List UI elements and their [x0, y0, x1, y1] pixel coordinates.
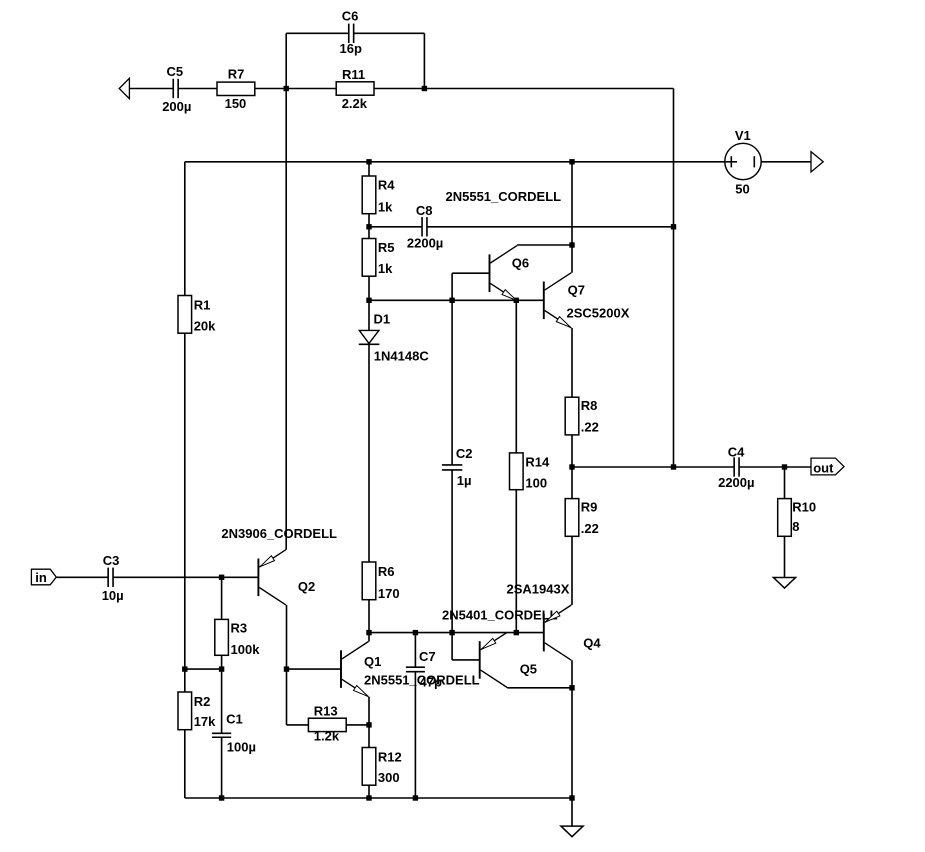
svg-text:1N4148C: 1N4148C — [374, 348, 430, 363]
svg-text:.22: .22 — [581, 521, 599, 536]
voltage source V1 50 — [725, 128, 761, 197]
wire C6 branch left vertical — [285, 33, 287, 88]
wire Q6 collector column up — [571, 162, 573, 245]
node output node at R8/R9 — [569, 464, 574, 469]
svg-text:R3: R3 — [231, 620, 248, 635]
svg-text:C5: C5 — [167, 64, 184, 79]
svg-text:1k: 1k — [378, 199, 393, 214]
wire R14 top wire — [515, 300, 517, 453]
node out row / right rail junction — [671, 464, 676, 469]
wire C6 branch right horizontal — [354, 32, 425, 34]
svg-text:100µ: 100µ — [227, 739, 256, 754]
capacitor C6 16p — [340, 8, 362, 55]
wire C6 branch left horizontal — [286, 32, 349, 34]
wire Q1 emitter stub — [368, 697, 370, 725]
node R5/D1 junction — [366, 298, 371, 303]
wire left rail lower — [184, 730, 186, 798]
svg-text:in: in — [35, 570, 47, 585]
wire C5 to R7 — [178, 88, 217, 90]
transistor Q5 (2N5401) — [442, 608, 558, 688]
wire Q4 collector down — [571, 660, 573, 688]
svg-text:1.2k: 1.2k — [314, 728, 340, 743]
node C7 bottom junction — [413, 795, 418, 800]
resistor R14 100 — [510, 453, 551, 491]
transistor Q1 (2N5551) — [341, 642, 480, 697]
wire node to R11 — [286, 88, 336, 90]
diode D1 1N4148C — [359, 300, 430, 363]
node C2 top junction — [449, 298, 454, 303]
resistor R13 1.2k — [308, 703, 346, 743]
capacitor C7 47p — [406, 649, 442, 690]
wire Q2 collector column — [286, 605, 288, 669]
node C7 top junction — [413, 630, 418, 635]
wire R10 to ground — [784, 536, 786, 577]
wire V+ to R4 — [368, 162, 370, 176]
capacitor C8 2200µ — [407, 203, 443, 251]
wire C7 bottom wire — [414, 672, 416, 798]
wire R5 to D1 node — [368, 277, 370, 301]
wire Q2 collector to R13 — [287, 724, 309, 726]
wire R12 to bottom rail — [368, 786, 370, 799]
node R12 bottom junction — [366, 795, 371, 800]
svg-text:200µ: 200µ — [162, 99, 191, 114]
resistor R7 150 — [217, 66, 255, 111]
wire Q6 collector to column — [517, 244, 572, 246]
node C8 / right rail junction — [671, 224, 676, 229]
resistor R6 170 — [362, 562, 399, 601]
svg-text:1µ: 1µ — [457, 473, 472, 488]
wire VAS row — [369, 299, 544, 301]
wire C2 bottom wire — [451, 470, 453, 633]
wire R14 bottom wire — [515, 490, 517, 633]
svg-text:R7: R7 — [228, 66, 245, 81]
capacitor C3 10µ — [102, 553, 124, 603]
resistor R4 1k — [362, 176, 395, 214]
svg-text:2.2k: 2.2k — [342, 96, 368, 111]
svg-text:Q1: Q1 — [364, 654, 381, 669]
wire Q7 collector up — [571, 245, 573, 273]
svg-text:R4: R4 — [378, 178, 395, 193]
wire Q1 base wire — [287, 668, 342, 670]
wire Q1 emitter to R12 — [368, 725, 370, 748]
wire C8 to right rail — [427, 226, 674, 228]
rail arrow right (supply) — [811, 152, 823, 172]
svg-text:1k: 1k — [378, 261, 393, 276]
node R14 bottom junction — [514, 630, 519, 635]
capacitor C4 2200µ — [718, 444, 754, 490]
svg-text:R10: R10 — [792, 499, 816, 514]
resistor R8 .22 — [565, 397, 599, 435]
svg-text:20k: 20k — [194, 319, 216, 334]
svg-text:50: 50 — [735, 182, 749, 197]
wire Q6 base wire — [452, 272, 489, 274]
wire R13 to Q1 emitter — [346, 724, 369, 726]
wire output column to bottom rail — [571, 688, 573, 798]
node Q2 collector / Q1 base junction — [284, 666, 289, 671]
transistor Q6 (2N5551) — [490, 246, 530, 301]
svg-text:Q2: Q2 — [298, 579, 315, 594]
svg-text:100: 100 — [525, 476, 547, 491]
wire C6 branch right vertical — [423, 33, 425, 88]
svg-text:Q5: Q5 — [520, 662, 537, 677]
wire Q6 base drop — [451, 273, 453, 300]
wire mid row — [369, 632, 544, 634]
output flag 'out' — [811, 458, 844, 475]
resistor R12 300 — [362, 748, 402, 786]
svg-text:R13: R13 — [314, 703, 338, 718]
svg-text:16p: 16p — [340, 41, 362, 56]
wire arrow to C5 — [129, 88, 173, 90]
wire C1 top wire — [221, 669, 223, 733]
node R7/R11/C6 junction — [284, 86, 289, 91]
svg-text:2N3906_CORDELL: 2N3906_CORDELL — [221, 526, 337, 541]
svg-text:170: 170 — [378, 586, 400, 601]
transistor Q7 (2SC5200X) — [544, 273, 630, 328]
ground ground at R10 — [773, 578, 795, 589]
svg-text:10µ: 10µ — [102, 588, 124, 603]
wire C1 bottom wire — [221, 737, 223, 798]
svg-text:C7: C7 — [419, 649, 436, 664]
node R10 / out flag junction — [782, 464, 787, 469]
transistor Q4 (2SA1943X) — [507, 581, 602, 660]
node R11/C6 junction — [422, 86, 427, 91]
svg-text:2200µ: 2200µ — [718, 475, 754, 490]
wire Q5 base drop — [451, 633, 453, 660]
node bottom rail / ground junction — [569, 795, 574, 800]
svg-text:C6: C6 — [342, 8, 359, 23]
node R4/R5/C8 junction — [366, 224, 371, 229]
svg-text:C3: C3 — [103, 553, 120, 568]
wire V1 to rail arrow — [761, 161, 811, 163]
svg-text:.22: .22 — [581, 420, 599, 435]
wire out node to R10 — [784, 467, 786, 499]
wire Q5 collector to junction — [507, 687, 572, 689]
node C1 bottom junction — [219, 795, 224, 800]
svg-text:R9: R9 — [581, 499, 598, 514]
resistor R5 1k — [362, 239, 394, 277]
wire R4 to C8 node — [368, 214, 370, 227]
node Q5/Q4 collector junction — [569, 685, 574, 690]
svg-text:out: out — [813, 460, 834, 475]
svg-text:C1: C1 — [226, 712, 243, 727]
svg-text:2SA1943X: 2SA1943X — [507, 581, 570, 596]
svg-text:Q4: Q4 — [583, 636, 601, 651]
wire Q7 emitter down to R8 — [571, 328, 573, 397]
wire R11 to node — [374, 88, 424, 90]
svg-text:2N5551_CORDELL: 2N5551_CORDELL — [446, 189, 562, 204]
node Q1 emitter / R13 junction — [366, 722, 371, 727]
svg-text:8: 8 — [792, 519, 799, 534]
wire right rail — [673, 89, 675, 468]
wire R3 top wire — [221, 577, 223, 619]
input flag 'in' — [31, 569, 56, 585]
wire bias row — [185, 668, 222, 670]
wire C8 node to R5 — [368, 227, 370, 239]
node V+ / R4 junction — [366, 159, 371, 164]
node Q6 collector junction — [569, 242, 574, 247]
svg-text:Q6: Q6 — [512, 256, 529, 271]
wire Q2 emitter column — [285, 89, 287, 550]
wire R6 to mid node — [368, 600, 370, 633]
wire D1 to R6 — [368, 344, 370, 562]
wire Q5 base wire — [452, 659, 480, 661]
wire R8 to out node — [571, 435, 573, 467]
node Q2 base / R3 junction — [219, 575, 224, 580]
wire top row to right rail — [424, 88, 673, 90]
resistor R11 2.2k — [336, 67, 374, 111]
svg-text:100k: 100k — [231, 642, 261, 657]
wire V+ row — [185, 161, 725, 163]
svg-text:R1: R1 — [194, 298, 211, 313]
wire C3 to Q2 base — [113, 576, 258, 578]
svg-text:R8: R8 — [581, 398, 598, 413]
svg-text:47p: 47p — [420, 675, 442, 690]
svg-text:R2: R2 — [194, 694, 211, 709]
svg-text:2200µ: 2200µ — [407, 236, 443, 251]
wire left rail middle — [184, 334, 186, 670]
wire out node to R9 — [571, 467, 573, 499]
wire left rail upper — [184, 162, 186, 296]
resistor R3 100k — [215, 619, 260, 657]
wire out row left — [572, 466, 674, 468]
svg-text:R6: R6 — [378, 564, 395, 579]
svg-text:R12: R12 — [378, 750, 402, 765]
node C2 bottom junction — [449, 630, 454, 635]
wire in flag to C3 — [56, 576, 108, 578]
resistor R1 20k — [178, 296, 216, 334]
node V+ / Q6 collector junction — [569, 159, 574, 164]
svg-text:R11: R11 — [342, 67, 365, 82]
resistor R10 8 — [778, 499, 816, 537]
resistor R9 .22 — [565, 499, 599, 537]
svg-text:C8: C8 — [416, 203, 433, 218]
transistor Q2 (2N3906) — [221, 526, 337, 605]
wire node to out flag — [785, 466, 812, 468]
svg-text:V1: V1 — [735, 128, 751, 143]
capacitor C2 1µ — [442, 446, 473, 488]
capacitor C5 200µ — [162, 64, 191, 114]
svg-text:150: 150 — [225, 96, 247, 111]
capacitor C1 100µ — [212, 712, 256, 755]
wire R3 bottom wire — [221, 656, 223, 670]
node left rail / bias junction — [182, 666, 187, 671]
node Q6 emitter / R14 junction — [514, 298, 519, 303]
svg-text:C4: C4 — [728, 444, 745, 459]
rail arrow left (supply) — [119, 78, 129, 98]
ground main ground — [561, 826, 583, 837]
wire left rail R2 top — [184, 669, 186, 692]
wire C7 top wire — [414, 633, 416, 668]
wire out row to C4 — [674, 466, 735, 468]
svg-text:D1: D1 — [374, 312, 391, 327]
svg-text:Q7: Q7 — [568, 283, 585, 298]
resistor R2 17k — [178, 692, 216, 730]
svg-text:17k: 17k — [194, 714, 216, 729]
wire R7 to node — [255, 88, 286, 90]
wire C8 node to C8 — [369, 226, 422, 228]
wire Q1 collector stub — [368, 633, 370, 642]
svg-text:R14: R14 — [525, 454, 550, 469]
svg-text:C2: C2 — [456, 446, 473, 461]
svg-text:R5: R5 — [378, 240, 395, 255]
wire R9 to Q4 emitter — [571, 536, 573, 605]
wire Q2 collector lower — [286, 669, 288, 725]
wire ground stem — [571, 798, 573, 826]
wire C2 top wire — [451, 300, 453, 465]
wire bottom rail — [185, 797, 572, 799]
svg-text:2SC5200X: 2SC5200X — [567, 305, 630, 320]
wire C4 to R10 node — [739, 466, 784, 468]
svg-text:2N5401_CORDELL: 2N5401_CORDELL — [442, 608, 558, 623]
svg-text:300: 300 — [378, 770, 400, 785]
node Q1 collector junction — [366, 630, 371, 635]
node R2/R3/C1 junction — [219, 666, 224, 671]
